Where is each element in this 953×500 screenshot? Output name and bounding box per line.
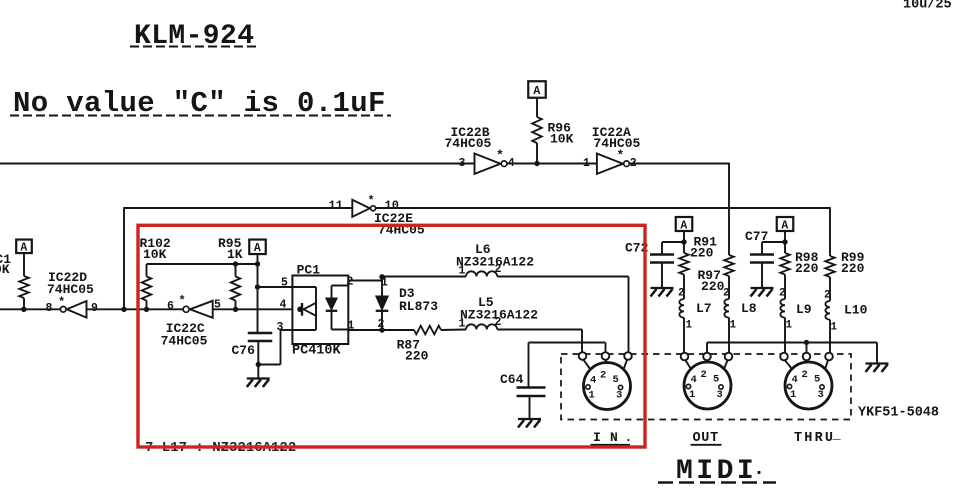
wire L6 to MIDI IN pin: [628, 277, 630, 353]
svg-text:2: 2: [779, 288, 786, 300]
svg-text:1: 1: [589, 390, 595, 402]
svg-text:THRU: THRU: [794, 431, 835, 446]
svg-text:220: 220: [690, 246, 714, 261]
svg-text:74HC05: 74HC05: [47, 282, 94, 297]
svg-text:5: 5: [613, 374, 619, 386]
capacitor C64: [605, 343, 607, 353]
resistor R91: [683, 242, 685, 253]
svg-text:A: A: [533, 85, 540, 98]
resistor R98: [784, 242, 786, 253]
svg-text:RL873: RL873: [399, 299, 438, 314]
svg-text:4: 4: [691, 374, 697, 386]
svg-text:1: 1: [686, 320, 693, 332]
svg-text:0K: 0K: [0, 262, 10, 277]
svg-text:*: *: [496, 148, 504, 163]
svg-text:220: 220: [701, 279, 725, 294]
svg-text:*: *: [58, 296, 65, 310]
svg-text:I: I: [593, 430, 601, 445]
inductor L7: [679, 299, 684, 318]
power A (R91): [676, 217, 693, 231]
svg-text:2: 2: [824, 290, 831, 302]
svg-text:L7: L7: [696, 301, 712, 316]
inverter IC22B: [475, 154, 501, 174]
wire top rail: [0, 163, 475, 165]
svg-text:3: 3: [717, 389, 723, 401]
svg-text:1: 1: [790, 389, 796, 401]
dashed connector enclosure: [561, 354, 851, 420]
ground (shield bus): [866, 362, 889, 364]
svg-text:10K: 10K: [143, 247, 167, 262]
PC1 photodiode: [331, 286, 333, 330]
ground (C72): [651, 287, 674, 289]
inverter IC22C: [190, 301, 213, 318]
svg-text:C76: C76: [232, 343, 256, 358]
wire PC1 pin2 to D3: [347, 281, 349, 286]
svg-text:5: 5: [814, 374, 820, 386]
resistor R96: [536, 98, 538, 117]
svg-text:2: 2: [802, 369, 808, 381]
diode D3 RL873: [381, 277, 383, 297]
svg-text:1: 1: [831, 322, 838, 334]
inductor L9: [780, 299, 785, 318]
power A (R98): [777, 217, 794, 231]
svg-text:A: A: [20, 242, 27, 255]
connector MIDI IN: [584, 363, 631, 410]
svg-text:N: N: [610, 430, 618, 445]
svg-text:220: 220: [405, 349, 429, 364]
inductor L5: [441, 329, 466, 332]
power A (R95): [249, 240, 266, 255]
svg-text:C77: C77: [745, 229, 768, 244]
wire shield bus: [706, 343, 708, 353]
connector MIDI THRU: [785, 362, 832, 409]
wire thru rail: [124, 207, 352, 209]
svg-text:YKF51-5048: YKF51-5048: [858, 406, 939, 421]
svg-text:_: _: [832, 428, 842, 443]
ground (C77): [751, 287, 774, 289]
wire L5 to MIDI IN pin: [581, 330, 583, 353]
resistor R102: [146, 264, 148, 277]
svg-text:PC410K: PC410K: [292, 344, 342, 359]
inductor L8: [724, 299, 729, 318]
wire R102-R95 top rail: [147, 263, 258, 265]
svg-text:74HC05: 74HC05: [161, 334, 208, 349]
svg-text:9: 9: [91, 302, 98, 315]
resistor R97: [724, 255, 734, 276]
svg-text:2: 2: [630, 157, 637, 170]
svg-text:.: .: [753, 458, 765, 481]
svg-text:10K: 10K: [550, 132, 574, 147]
inductor L10: [825, 301, 830, 320]
ground (C76): [257, 365, 259, 379]
svg-text:NZ3216A122: NZ3216A122: [456, 255, 534, 270]
wire mid rail: [0, 308, 60, 310]
inverter IC22D: [67, 301, 87, 318]
wire PC1 pin1 bottom: [347, 329, 349, 332]
svg-text:C64: C64: [500, 372, 524, 387]
svg-text:4: 4: [590, 375, 596, 387]
svg-text:1: 1: [730, 320, 737, 332]
svg-text:1K: 1K: [227, 247, 243, 262]
svg-text:A: A: [254, 242, 261, 255]
resistor R87: [414, 326, 441, 335]
svg-text:1: 1: [689, 389, 695, 401]
svg-text:L10: L10: [844, 303, 868, 318]
resistor R95: [235, 264, 237, 277]
svg-text:OUT: OUT: [693, 431, 719, 446]
svg-text:2: 2: [600, 370, 606, 382]
svg-text:220: 220: [795, 261, 819, 276]
svg-text:L9: L9: [796, 302, 812, 317]
svg-text:2: 2: [701, 369, 707, 381]
svg-text:220: 220: [841, 261, 865, 276]
svg-text:4: 4: [280, 299, 287, 312]
inverter IC22E: [352, 200, 370, 217]
wire node to PC1 pin5: [257, 264, 259, 287]
svg-text:3: 3: [616, 390, 622, 402]
svg-text:*: *: [368, 194, 375, 208]
inverter IC22A: [597, 154, 623, 174]
resistor left input: [23, 253, 25, 276]
connector MIDI OUT: [684, 362, 731, 409]
capacitor C72: [662, 241, 684, 243]
svg-text:74HC05: 74HC05: [594, 136, 641, 151]
optocoupler PC1 PC410K: [292, 276, 348, 345]
svg-text:NZ3216A122: NZ3216A122: [460, 308, 538, 323]
svg-text:3: 3: [818, 389, 824, 401]
svg-text:5: 5: [281, 277, 288, 290]
svg-text:1: 1: [786, 320, 793, 332]
svg-text:3: 3: [459, 157, 466, 170]
capacitor C77: [762, 241, 785, 243]
svg-text:A: A: [781, 219, 788, 232]
svg-text:A: A: [680, 219, 687, 232]
svg-text:PC1: PC1: [297, 263, 321, 278]
svg-text:2: 2: [723, 288, 730, 300]
svg-text:4: 4: [792, 374, 798, 386]
svg-text:1: 1: [381, 277, 388, 290]
svg-text:8: 8: [46, 302, 53, 315]
svg-text:.: .: [625, 430, 633, 445]
power A (R96): [528, 81, 546, 98]
svg-text:L8: L8: [741, 301, 757, 316]
svg-text:4: 4: [508, 157, 515, 170]
svg-text:2: 2: [678, 288, 685, 300]
svg-text:6: 6: [167, 300, 174, 313]
PC1 LED: [292, 286, 316, 288]
svg-text:1: 1: [583, 157, 590, 170]
svg-text:74HC05: 74HC05: [445, 136, 492, 151]
svg-text:*: *: [179, 294, 186, 308]
capacitor C76: [257, 287, 259, 333]
svg-text:5: 5: [214, 299, 221, 312]
power A (left input resistor): [16, 240, 32, 254]
svg-text:5: 5: [713, 374, 719, 386]
svg-text:11: 11: [329, 199, 343, 213]
svg-text:10u/25: 10u/25: [903, 0, 952, 13]
inductor L6: [382, 276, 466, 278]
ground (C64): [518, 418, 541, 420]
resistor R99: [825, 256, 835, 277]
red highlight box: [138, 225, 645, 447]
